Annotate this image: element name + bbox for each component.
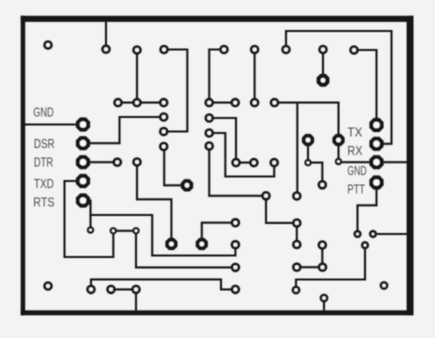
pad P38 — [231, 263, 241, 273]
pad P36 — [231, 218, 241, 228]
svg-text:DTR: DTR — [34, 155, 53, 169]
wire P40 to P39 — [91, 279, 235, 289]
wire P10-P12 — [118, 102, 164, 104]
svg-text:DSR: DSR — [34, 137, 55, 151]
board outline left edge — [21, 16, 26, 316]
mounting hole pad P1 — [43, 40, 53, 50]
pad P33 — [318, 240, 328, 250]
wire T7 to right border — [373, 233, 407, 235]
pad P27 — [269, 158, 279, 168]
small pad T2 — [110, 227, 117, 234]
pad P11 — [132, 98, 142, 108]
connector pad DTR — [76, 155, 90, 169]
wire P35-P34 — [297, 266, 323, 268]
large pad B2 — [302, 134, 314, 146]
wire TXD C4 to T2 — [65, 181, 114, 257]
connector pad TX — [369, 118, 383, 132]
wire P22 to P28b — [209, 146, 266, 196]
pad P29 — [292, 218, 302, 228]
pad P25 — [231, 158, 241, 168]
pad P6 — [250, 45, 260, 55]
wire P9 to TX pad — [354, 50, 377, 125]
large pad B4 — [181, 179, 193, 191]
wire P43 to T8 — [296, 245, 365, 290]
svg-text:RTS: RTS — [33, 196, 54, 210]
wire DSR C2 to P17 — [83, 117, 164, 143]
pad P13 — [204, 98, 214, 108]
large pad B6 — [196, 238, 208, 250]
pad P32 — [318, 180, 328, 190]
wire B3-T5 — [337, 140, 339, 162]
pad P24 — [132, 157, 142, 167]
pad P40 — [86, 285, 96, 295]
connector pad GND right — [369, 155, 383, 169]
wire from top border to pad P2 — [105, 22, 107, 49]
svg-text:TX: TX — [347, 125, 362, 139]
pad P44 — [320, 294, 329, 303]
pad P21 — [204, 128, 214, 138]
mounting hole pad P46 — [380, 281, 389, 290]
small pad T4 — [304, 159, 311, 166]
large pad B5 — [165, 238, 177, 250]
pad P16 — [270, 98, 280, 108]
wire P25-P26 — [236, 162, 254, 164]
wire RTS branch to P37 — [91, 215, 236, 256]
wire PTT pad to T6 — [358, 183, 377, 235]
pad P26 — [249, 158, 259, 168]
pad P22 — [204, 141, 214, 151]
wire P4 to pad P18 via bend — [164, 50, 188, 132]
pad P5 — [219, 45, 229, 55]
wire RTS C5 to T1 — [83, 201, 91, 231]
wire T5 to GND pad to right border — [339, 161, 408, 163]
wire P36 to B6 — [202, 223, 236, 244]
wire bus branch to P28 — [296, 103, 298, 196]
svg-text:PTT: PTT — [347, 183, 365, 197]
pad P9 — [349, 45, 359, 55]
wire T4 to P32 — [308, 163, 322, 185]
small pad T8 — [361, 241, 369, 249]
wire P28b to P29 — [266, 196, 297, 223]
wire DTR C3 to P23 — [83, 161, 117, 163]
pad P3 — [132, 45, 142, 55]
svg-text:GND: GND — [347, 164, 366, 178]
board outline bottom edge — [21, 310, 414, 315]
pad P10 — [113, 98, 123, 108]
pad P2 — [101, 44, 111, 54]
svg-text:RX: RX — [347, 144, 363, 158]
large pad B1 — [317, 74, 330, 87]
pad P41 — [106, 285, 116, 295]
pad P43 — [292, 286, 301, 295]
wire left border to GND pad C1 — [22, 123, 83, 125]
wire P29-P30 — [296, 223, 298, 245]
wire P19 to B4 — [164, 147, 187, 186]
svg-text:GND: GND — [33, 106, 53, 120]
connector pad RTS — [76, 193, 90, 207]
wire T3 to P38 — [136, 231, 235, 268]
small pad T1 — [87, 226, 94, 233]
pad P8 — [318, 45, 328, 55]
wire P16 to B3 — [275, 103, 339, 140]
wire P7 to RX pad — [286, 31, 392, 144]
wire P21 to P27 — [209, 133, 274, 177]
wire P20 to P25 — [209, 118, 236, 163]
pad P12 — [159, 98, 169, 108]
pad P4 — [159, 45, 169, 55]
svg-text:TXD: TXD — [34, 177, 54, 191]
pad P42 — [131, 285, 141, 295]
pad P28 — [292, 191, 302, 201]
connector pad PTT — [369, 175, 383, 189]
connector pad RX — [369, 137, 383, 151]
pad P17 — [159, 112, 169, 122]
wire P5 to P13 — [209, 50, 224, 103]
large pad B3 — [332, 134, 344, 146]
wire P33-P34 — [321, 245, 323, 267]
small pad T7 — [369, 230, 377, 238]
wire B2-T4 — [307, 140, 309, 163]
wire T2-T3 — [113, 230, 136, 232]
pad P14 — [230, 98, 240, 108]
mounting hole pad P45 — [43, 281, 53, 291]
connector pad GND left — [76, 117, 90, 131]
board outline right edge — [407, 16, 414, 316]
small pad T5 — [335, 158, 342, 165]
wire P13-P14 — [209, 102, 235, 104]
pad P34 — [318, 262, 328, 272]
wire P41-P42 — [111, 288, 136, 290]
pad P18 — [159, 127, 169, 137]
wire P8-B1 — [322, 50, 324, 81]
pad P37 — [231, 240, 241, 250]
wire P44 to bottom border — [323, 298, 325, 310]
pad P19 — [159, 142, 169, 152]
pad P28b — [261, 191, 271, 201]
pad P7 — [281, 45, 291, 55]
connector pad TXD — [76, 174, 90, 188]
wire P42 to bottom border — [135, 290, 137, 311]
pad P39 — [231, 285, 241, 295]
pad P30 — [292, 240, 302, 250]
small pad T3 — [132, 227, 139, 234]
wire P3-P11 — [136, 50, 138, 103]
small pad T6 — [353, 230, 361, 238]
wire P24 to B5 — [137, 162, 171, 244]
wire P6-P15 — [254, 50, 256, 103]
connector pad DSR — [76, 136, 90, 150]
pad P20 — [204, 113, 214, 123]
pad P35 — [292, 262, 302, 272]
pad P15 — [250, 98, 260, 108]
board outline top edge — [21, 16, 414, 22]
pad P23 — [113, 157, 123, 167]
